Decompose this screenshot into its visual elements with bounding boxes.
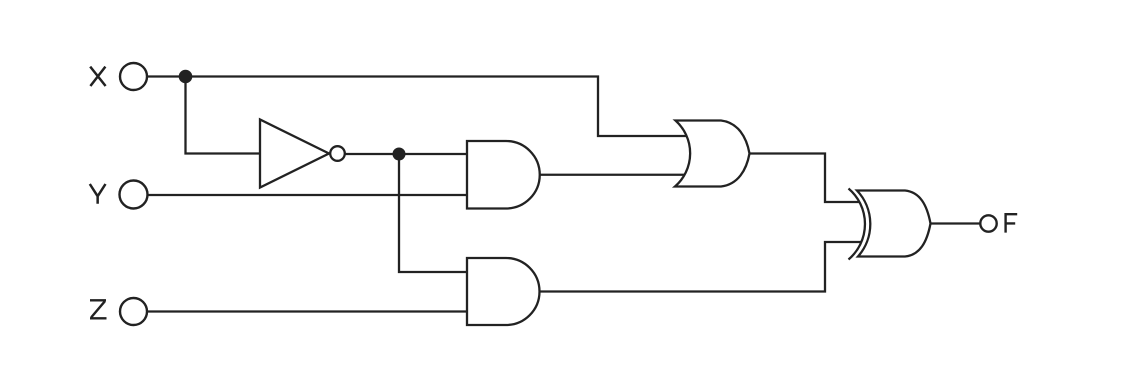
AND gate U2 (467, 141, 540, 209)
label Z (90, 300, 107, 318)
label X (90, 67, 105, 86)
input terminal Y (120, 181, 148, 209)
NOT gate U1 bubble (330, 146, 345, 161)
node junction J1 on X (179, 70, 193, 84)
wire NOT output to AND1 top input (344, 153, 470, 155)
AND gate U3 (467, 258, 540, 325)
wire XOR output to F terminal (931, 222, 981, 224)
wire OR output to XOR top input (750, 154, 860, 203)
wire AND2 output to XOR bottom input (540, 242, 862, 292)
label Y (90, 184, 106, 204)
input terminal X (120, 63, 147, 90)
input terminal Z (120, 298, 147, 325)
wire Z terminal to AND2 bottom input (147, 310, 470, 312)
wire X terminal to OR top input (147, 77, 700, 137)
XOR gate U5 body (857, 191, 931, 257)
NOT gate U1 triangle (260, 120, 329, 188)
wire X branch to NOT input (186, 77, 263, 154)
OR gate U4 (675, 121, 750, 187)
wire Y terminal to AND1 bottom input (148, 194, 471, 196)
wire J2 down to AND2 top input (399, 154, 470, 272)
XOR gate U5 back arc (849, 189, 865, 260)
label F (1004, 213, 1017, 233)
wire AND1 output to OR bottom input (540, 174, 701, 176)
output terminal F (980, 215, 996, 231)
node junction J2 on NOT output (393, 148, 406, 161)
